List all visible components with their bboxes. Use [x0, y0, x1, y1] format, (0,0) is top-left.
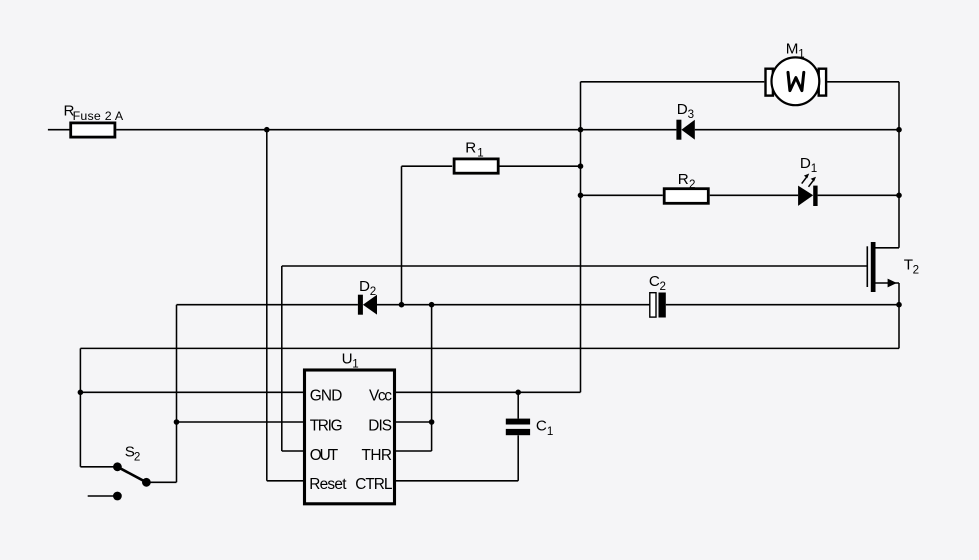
- svg-text:Vcc: Vcc: [369, 388, 392, 405]
- node right rail D3: [896, 127, 902, 133]
- node fuse junction: [264, 127, 270, 133]
- wire motor rail left: [581, 81, 765, 83]
- resistor R1 box: [454, 159, 498, 173]
- wire TRIG pin: [177, 421, 305, 423]
- svg-text:OUT: OUT: [310, 447, 339, 464]
- diode D2 cathode bar: [358, 295, 363, 315]
- svg-text:C: C: [649, 273, 660, 290]
- capacitor C1 plate top: [506, 419, 530, 425]
- led D1 cathode bar: [813, 186, 817, 206]
- wire D2 left lead: [177, 304, 358, 306]
- node mid rail R2: [578, 193, 584, 199]
- svg-text:1: 1: [547, 425, 553, 438]
- node GND left junction: [78, 390, 84, 396]
- svg-text:2: 2: [134, 450, 140, 463]
- svg-text:2: 2: [913, 263, 919, 276]
- svg-text:1: 1: [477, 146, 483, 159]
- wire motor rail right: [827, 81, 899, 83]
- wire top rail D3 to right: [695, 129, 899, 131]
- transistor T2 source arrow: [888, 279, 897, 288]
- wire T2 source lead: [876, 282, 900, 284]
- transistor T2 gate bar: [866, 246, 868, 287]
- motor M1 W glyph: [788, 72, 804, 90]
- wire THR pin: [396, 450, 432, 452]
- wire long bottom rail: [80, 347, 899, 349]
- svg-text:D: D: [677, 101, 688, 118]
- resistor RFuse box: [71, 123, 115, 137]
- wire R1 left lead: [402, 165, 453, 167]
- wire T2 gate: [282, 265, 867, 267]
- wire GND pin: [80, 391, 304, 393]
- node D2 DIS junction: [429, 302, 435, 308]
- opamp U1 ic box: [305, 370, 395, 504]
- wire vertical right rail motor to drain: [898, 82, 900, 248]
- led D1 triangle: [798, 186, 813, 206]
- wire C2 right lead: [666, 304, 899, 306]
- svg-text:THR: THR: [362, 447, 393, 464]
- wire T2 drain lead: [876, 247, 900, 249]
- wire C1 bottom lead: [517, 435, 519, 481]
- switch S2 throw dot: [142, 478, 151, 487]
- node D2 R1 junction: [399, 302, 405, 308]
- diode D3 cathode bar: [676, 120, 681, 140]
- svg-text:2: 2: [370, 285, 376, 298]
- svg-text:3: 3: [688, 108, 694, 121]
- svg-text:1: 1: [811, 162, 817, 175]
- motor M1 brush right: [819, 69, 826, 96]
- node mid rail R1: [578, 163, 584, 169]
- wire R1 right lead: [499, 165, 581, 167]
- switch S2 lower contact dot: [113, 492, 122, 501]
- capacitor C2 plate left: [650, 293, 656, 317]
- wire vertical DIS THR node: [431, 305, 433, 451]
- wire vertical left rail to S2: [79, 348, 81, 466]
- svg-text:U: U: [342, 351, 353, 368]
- wire Reset pin: [267, 480, 305, 482]
- svg-text:GND: GND: [310, 388, 343, 405]
- wire Vcc pin: [396, 391, 581, 393]
- wire S2 output lead: [146, 481, 176, 483]
- node Vcc C1 junction: [515, 390, 521, 396]
- resistor R2 box: [664, 189, 708, 204]
- wire vertical gate to OUT: [281, 266, 283, 451]
- wire vertical T2 source to bottom rail: [898, 283, 900, 348]
- wire S2 pole lead: [80, 466, 117, 468]
- svg-text:DIS: DIS: [368, 417, 392, 434]
- wire R2 to D1: [710, 194, 798, 196]
- capacitor C1 plate bottom: [506, 429, 530, 435]
- svg-text:2: 2: [660, 280, 666, 293]
- node mid rail D3: [578, 127, 584, 133]
- wire CTRL pin: [396, 480, 518, 482]
- wire D2 to C2: [377, 304, 650, 306]
- switch S2 pole dot: [113, 462, 122, 471]
- svg-text:Fuse 2 A: Fuse 2 A: [73, 109, 124, 123]
- svg-text:M: M: [786, 40, 799, 57]
- svg-text:1: 1: [352, 358, 358, 371]
- wire S2 lower stub: [88, 495, 118, 497]
- svg-text:TRIG: TRIG: [310, 417, 343, 434]
- led D1 arrow 1: [802, 174, 810, 184]
- svg-text:R: R: [678, 171, 689, 188]
- svg-text:1: 1: [798, 47, 804, 60]
- wire vertical D2 corner to S2 out: [176, 305, 178, 483]
- wire top rail left of fuse: [48, 129, 71, 131]
- svg-text:R: R: [465, 139, 476, 156]
- wire top rail fuse to D3: [116, 129, 676, 131]
- motor M1 brush left: [766, 69, 773, 96]
- wire vertical fuse junction to Reset: [266, 130, 268, 481]
- diode D3 triangle: [681, 120, 694, 140]
- diode D2 triangle: [363, 295, 377, 315]
- wire DIS pin: [396, 421, 432, 423]
- wire OUT pin: [282, 450, 305, 452]
- svg-text:D: D: [800, 155, 811, 172]
- svg-text:2: 2: [689, 178, 695, 191]
- motor M1 body circle: [772, 57, 820, 105]
- svg-text:C: C: [536, 418, 547, 435]
- switch S2 lever: [117, 467, 146, 483]
- node right rail D1: [896, 193, 902, 199]
- wire R2 left lead: [581, 194, 663, 196]
- wire D1 right lead: [818, 194, 899, 196]
- svg-text:Reset: Reset: [309, 476, 347, 493]
- svg-text:CTRL: CTRL: [355, 476, 393, 493]
- capacitor C2 plate right: [659, 293, 666, 318]
- wire vertical mid rail motor to Vcc: [580, 82, 582, 393]
- led D1 arrow 2: [809, 177, 817, 187]
- node TRIG S2 junction: [174, 419, 180, 425]
- node DIS junction: [429, 419, 435, 425]
- wire vertical R1 to D2 node: [401, 166, 403, 305]
- transistor T2 channel bar: [871, 242, 876, 292]
- svg-text:D: D: [359, 278, 370, 295]
- wire C1 top lead: [517, 392, 519, 418]
- node T2 source junction: [896, 302, 902, 308]
